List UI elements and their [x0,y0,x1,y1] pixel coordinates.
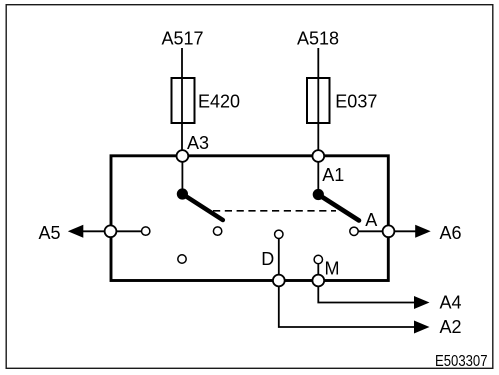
wire D contact to bottom edge [278,239,280,281]
wire contact A to right junction [359,230,389,232]
left switch arm [182,194,222,220]
svg-text:D: D [261,249,274,269]
junction D on bottom edge [273,275,285,287]
right switch arm [318,195,359,221]
arrow A5 [68,225,84,238]
svg-text:M: M [325,259,340,279]
contact circle (lower left) [178,255,186,263]
svg-text:A5: A5 [39,223,61,243]
svg-text:A3: A3 [187,133,209,153]
contact circle (below left arm tip) [213,227,221,235]
wire A4 from M junction [318,281,415,303]
svg-text:E503307: E503307 [435,353,488,370]
svg-text:A: A [365,210,377,230]
wire A6 from right junction [389,230,417,232]
contact circle (left of A5 junction) [142,227,150,235]
junction right (A6) [383,225,395,237]
junction A1 [312,150,324,162]
wire A2 from D junction [279,281,415,328]
contact circle A [350,227,358,235]
left switch pivot dot [177,188,188,199]
svg-text:A2: A2 [440,317,462,337]
junction M on bottom edge [312,275,324,287]
fuse E037 [307,78,330,123]
fuse E420 [172,78,195,123]
svg-text:E037: E037 [335,91,377,111]
svg-text:A518: A518 [297,28,339,48]
wire left junction to inner contact [111,230,142,232]
svg-text:A4: A4 [440,293,462,313]
svg-text:E420: E420 [198,91,240,111]
junction left (A5) [105,225,117,237]
wire from A517 to box top (A3) [181,48,183,156]
contact circle D [275,230,283,238]
arrow A2 [414,321,430,334]
wire A3 junction to left pivot [181,156,183,194]
wire A5 from left junction [83,230,111,232]
svg-text:A6: A6 [440,223,462,243]
arrow A4 [414,296,430,309]
svg-text:A517: A517 [161,28,203,48]
switch box outline [111,156,388,281]
wire from A518 to box top (A1) [317,48,319,156]
junction A3 [177,150,189,162]
arrow A6 [415,225,431,238]
wire A1 junction to right pivot [317,156,319,195]
svg-text:A1: A1 [322,165,344,185]
dashed coupling line [213,210,336,212]
wire M contact to bottom edge [317,264,319,280]
contact circle M [314,255,322,263]
right switch pivot dot [313,189,324,200]
